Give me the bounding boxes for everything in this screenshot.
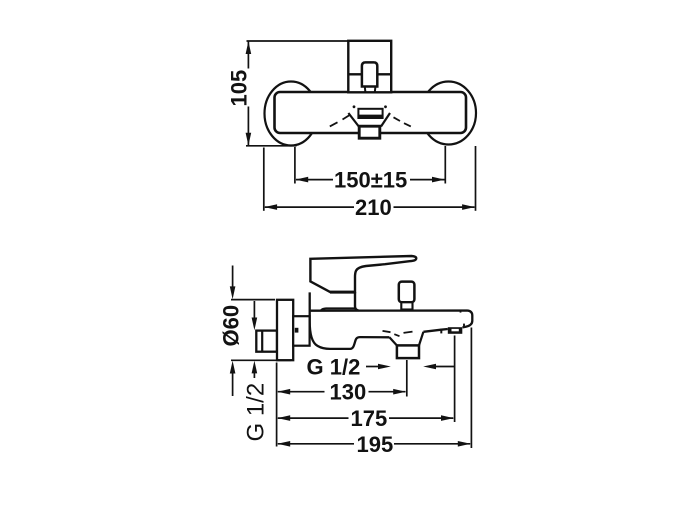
svg-text:130: 130 bbox=[330, 380, 367, 405]
wall plate bbox=[277, 300, 293, 360]
dim 130 line and arrows bbox=[277, 389, 406, 395]
svg-text:150±15: 150±15 bbox=[334, 168, 407, 193]
wall connector bbox=[293, 316, 309, 346]
svg-text:Ø60: Ø60 bbox=[219, 305, 244, 347]
dim 175 extension right bbox=[454, 336, 456, 423]
dim 130 text bbox=[330, 380, 367, 405]
dim O60 text bbox=[219, 305, 244, 347]
dim 175 text bbox=[351, 406, 388, 431]
dim O60 extension top bbox=[231, 299, 275, 301]
body top edge bbox=[311, 311, 473, 328]
aerator outlet bbox=[441, 327, 462, 334]
dim 210 extension left bbox=[263, 148, 265, 211]
svg-text:G 1/2: G 1/2 bbox=[243, 383, 270, 442]
diverter knob bbox=[399, 282, 415, 310]
dim G12 vertical text bbox=[243, 383, 270, 442]
dim 150 extension left bbox=[294, 147, 296, 184]
svg-text:210: 210 bbox=[355, 195, 392, 220]
cartridge cap line bbox=[321, 308, 355, 310]
spout tip top joint tick bbox=[460, 310, 462, 313]
hidden dash line left bbox=[330, 105, 356, 126]
left escutcheon circle bbox=[265, 82, 318, 146]
handle inner line bbox=[348, 73, 391, 75]
dim 195 text bbox=[357, 432, 394, 457]
spout tip face tick bbox=[463, 324, 465, 328]
dim 195 extension right bbox=[470, 328, 472, 449]
dim G12 horizontal line and arrows bbox=[366, 364, 454, 370]
svg-text:195: 195 bbox=[357, 432, 394, 457]
dim left extension (wall face) bbox=[276, 363, 278, 447]
dim O60 extension bottom bbox=[231, 359, 291, 361]
svg-text:G 1/2: G 1/2 bbox=[307, 355, 361, 380]
dim 130 extension right bbox=[406, 360, 408, 397]
dim O60 line and arrows bbox=[230, 266, 236, 397]
dim 105 extension bottom bbox=[246, 145, 297, 147]
shower outlet nut bbox=[397, 345, 419, 358]
spout upper plate (front) bbox=[358, 109, 382, 118]
dim G12 horizontal text bbox=[307, 355, 361, 380]
svg-text:175: 175 bbox=[351, 406, 388, 431]
handle neck (front) bbox=[362, 62, 377, 86]
dim 210 text bbox=[355, 195, 392, 220]
mixer body (front) bbox=[275, 92, 467, 133]
svg-text:105: 105 bbox=[227, 70, 252, 107]
spout funnel lines (front) bbox=[348, 113, 390, 127]
spout underside right bbox=[423, 329, 447, 332]
dim 105 extension top bbox=[247, 40, 349, 42]
dim 210 line and arrows bbox=[264, 204, 475, 210]
dim 195 line and arrows bbox=[277, 441, 470, 447]
shower outlet cone bbox=[389, 332, 423, 346]
inlet fitting bbox=[256, 331, 277, 352]
spout aerator (front) bbox=[359, 126, 380, 138]
hidden dash line right bbox=[384, 105, 411, 126]
body left face and underside bbox=[310, 292, 390, 349]
dim 175 line and arrows bbox=[277, 415, 453, 421]
dim 105 text bbox=[227, 70, 252, 107]
dim G12 vertical line and arrows bbox=[252, 301, 258, 378]
right escutcheon circle bbox=[421, 82, 476, 145]
dim 150+-15 text bbox=[334, 168, 407, 193]
dim 105 line and arrows bbox=[246, 41, 252, 145]
dim 210 extension right bbox=[475, 146, 477, 211]
lever handle (side) bbox=[310, 256, 416, 311]
dim 150+-15 line and arrows bbox=[295, 177, 444, 183]
hidden dashes on spout underside bbox=[383, 331, 413, 336]
dim 150 extension right bbox=[444, 146, 446, 184]
handle foot (front) bbox=[365, 87, 376, 93]
handle head (front) bbox=[348, 41, 391, 93]
